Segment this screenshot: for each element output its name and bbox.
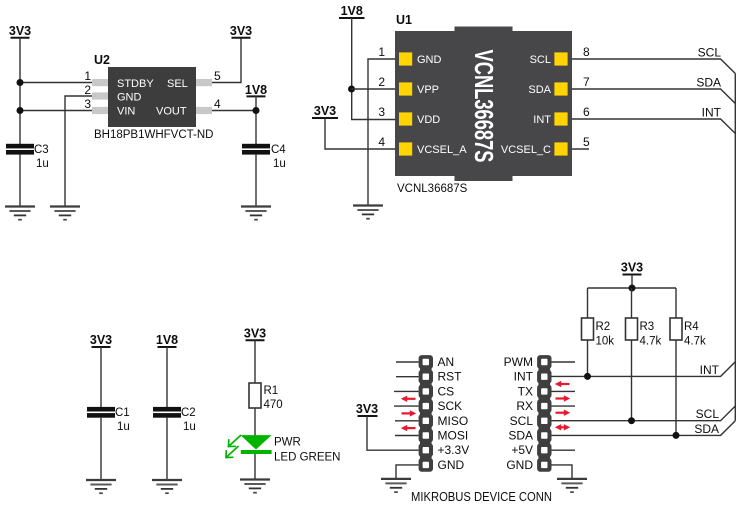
svg-text:SCL: SCL xyxy=(696,407,720,421)
svg-text:1u: 1u xyxy=(36,158,49,170)
svg-text:VDD: VDD xyxy=(417,114,440,126)
svg-text:GND: GND xyxy=(506,458,533,472)
wire C2 top xyxy=(166,347,168,407)
node junction R2/INT xyxy=(584,373,591,380)
svg-text:3V3: 3V3 xyxy=(356,402,378,416)
wire C3 to ground xyxy=(19,155,21,207)
wire stub U1 pin5 VCSEL_C xyxy=(572,148,589,150)
U1 pin pad 7 xyxy=(554,82,567,95)
capacitor C3 xyxy=(6,144,34,155)
signal arrow right TX/RX xyxy=(556,395,571,401)
wire R2 top xyxy=(587,288,589,318)
wire 3V3 vertical to C3 xyxy=(19,38,21,144)
wire LED to ground xyxy=(254,454,256,480)
svg-text:2: 2 xyxy=(378,75,385,89)
svg-text:1: 1 xyxy=(378,45,385,59)
svg-text:5: 5 xyxy=(214,69,221,83)
ground (C3) xyxy=(5,207,35,220)
svg-text:C3: C3 xyxy=(34,144,49,156)
U2 pin stub 5 xyxy=(196,79,212,86)
signal arrow right RX/SCL xyxy=(556,410,571,416)
wire U1 pin2 VPP xyxy=(352,88,396,90)
signal arrow both SCL/SDA xyxy=(555,424,570,430)
U1 pin pad 4 xyxy=(399,142,412,155)
wire R1 to LED xyxy=(254,408,256,436)
wire 1V8 flag down to C4 xyxy=(255,96,257,144)
svg-text:VCSEL_C: VCSEL_C xyxy=(501,144,551,156)
svg-text:INT: INT xyxy=(700,363,720,377)
node junction R3/SCL xyxy=(628,417,635,424)
power flag 3V3 (mikrobus +3.3V) xyxy=(356,402,378,416)
svg-text:SCK: SCK xyxy=(438,399,463,413)
wire stub MOSI xyxy=(395,435,419,437)
svg-text:TX: TX xyxy=(518,384,533,398)
svg-text:7: 7 xyxy=(583,75,590,89)
svg-text:3V3: 3V3 xyxy=(244,327,266,341)
ground (LED) xyxy=(240,480,270,493)
power flag 3V3 (U1 VCSEL_A) xyxy=(312,104,338,118)
U1 pin pad 8 xyxy=(554,52,567,65)
svg-text:C4: C4 xyxy=(271,144,286,156)
power flag 3V3 (R1/LED) xyxy=(244,327,266,341)
wire U2 pin5 SEL up to 3V3 flag xyxy=(212,38,241,83)
power flag 3V3 (top-left rail) xyxy=(9,24,31,38)
svg-text:LED GREEN: LED GREEN xyxy=(274,452,340,464)
svg-text:AN: AN xyxy=(438,355,455,369)
svg-text:INT: INT xyxy=(514,370,534,384)
resistor R2 xyxy=(582,318,594,340)
svg-text:5: 5 xyxy=(583,135,590,149)
svg-text:R2: R2 xyxy=(596,321,611,333)
svg-text:RX: RX xyxy=(516,399,533,413)
U2 pin stub 3 xyxy=(92,107,108,114)
wire C2 to ground xyxy=(166,418,168,480)
svg-text:VCNL36687S: VCNL36687S xyxy=(469,50,499,163)
svg-text:GND: GND xyxy=(438,458,465,472)
power flag 3V3 (U2 SEL) xyxy=(230,24,252,38)
wire C1 to ground xyxy=(100,418,102,480)
svg-text:R1: R1 xyxy=(264,385,279,397)
signal arrow left MISO/MOSI xyxy=(401,425,416,431)
wire net SCL from U1 pin8 to bus xyxy=(572,59,735,74)
wire 3V3 to +3.3V pin xyxy=(367,416,419,450)
svg-text:U1: U1 xyxy=(396,13,412,27)
svg-text:C1: C1 xyxy=(115,407,130,419)
node junction VOUT/1V8/C4 xyxy=(253,107,260,114)
svg-text:SDA: SDA xyxy=(694,422,719,436)
ground (U2 GND pin) xyxy=(50,207,80,220)
wire R1 top xyxy=(254,340,256,383)
LED PWR anode triangle xyxy=(241,435,272,449)
wire left GND pin to ground xyxy=(396,465,419,479)
U1 pin pad 3 xyxy=(399,112,412,125)
svg-text:C2: C2 xyxy=(181,407,196,419)
wire stub SCK xyxy=(394,405,419,407)
U2 pin stub 2 xyxy=(92,92,108,99)
svg-text:CS: CS xyxy=(438,384,455,398)
svg-text:SCL: SCL xyxy=(510,414,534,428)
bus line right edge xyxy=(734,74,736,421)
wire R2 bottom to INT xyxy=(587,340,589,376)
node junction 1V8/VPP xyxy=(348,86,355,93)
signal arrow right SCK/MISO xyxy=(402,410,417,416)
svg-text:1V8: 1V8 xyxy=(156,333,178,347)
svg-text:MOSI: MOSI xyxy=(438,429,469,443)
signal arrow left INT/TX xyxy=(555,381,570,387)
ground (mikrobus left) xyxy=(381,479,411,492)
resistor R1 xyxy=(249,383,261,408)
svg-text:8: 8 xyxy=(583,45,590,59)
svg-text:3V3: 3V3 xyxy=(314,104,336,118)
wire R3 top xyxy=(631,288,633,318)
wire 3V3 to U1 pin4 VCSEL_A xyxy=(325,118,395,149)
svg-text:GND: GND xyxy=(117,92,142,104)
wire U2 pin1 STDBY to 3V3 xyxy=(20,82,92,84)
svg-text:MIKROBUS DEVICE CONN: MIKROBUS DEVICE CONN xyxy=(411,490,552,504)
power flag 1V8 (C2) xyxy=(156,333,178,347)
U2 pin stub 4 xyxy=(196,107,212,114)
wire pull-up rail xyxy=(588,287,677,289)
svg-text:RST: RST xyxy=(438,370,463,384)
svg-text:SDA: SDA xyxy=(696,76,721,90)
svg-text:INT: INT xyxy=(702,106,722,120)
wire C4 to ground xyxy=(255,155,257,207)
svg-text:3: 3 xyxy=(84,97,91,111)
wire right GND pin to ground xyxy=(552,465,573,479)
power flag 1V8 (U1 supply) xyxy=(339,4,365,18)
wire net SCL from bus to header xyxy=(552,406,736,421)
LED light arrow 2 xyxy=(226,447,238,458)
svg-text:VCNL36687S: VCNL36687S xyxy=(397,183,468,195)
power flag 3V3 (C1) xyxy=(90,333,112,347)
header column left (mikrobus) xyxy=(419,355,433,472)
svg-text:MISO: MISO xyxy=(438,414,469,428)
svg-text:1V8: 1V8 xyxy=(341,4,363,18)
power flag 3V3 (pull-up rail) xyxy=(621,261,643,275)
resistor R3 xyxy=(626,318,638,340)
wire stub RST xyxy=(396,376,419,378)
svg-text:VIN: VIN xyxy=(117,106,135,118)
wire net SDA from U1 pin7 to bus xyxy=(572,89,735,104)
node junction 3V3/pin1 xyxy=(17,79,24,86)
svg-text:VPP: VPP xyxy=(417,84,439,96)
wire stub AN xyxy=(396,361,419,363)
node junction rail/R3 xyxy=(629,285,636,292)
svg-text:R3: R3 xyxy=(640,321,655,333)
svg-text:SDA: SDA xyxy=(508,429,533,443)
wire R3 bottom to SCL xyxy=(631,340,633,421)
svg-text:10k: 10k xyxy=(596,336,615,348)
wire net INT from bus to header xyxy=(552,362,736,377)
svg-text:1u: 1u xyxy=(117,421,130,433)
svg-text:3V3: 3V3 xyxy=(621,261,643,275)
svg-text:BH18PB1WHFVCT-ND: BH18PB1WHFVCT-ND xyxy=(94,129,214,141)
svg-text:U2: U2 xyxy=(94,53,110,67)
ground (C2) xyxy=(152,480,182,493)
wire C1 top xyxy=(100,347,102,407)
wire 3V3 flag to rail xyxy=(631,275,633,289)
U1 pin pad 6 xyxy=(554,112,567,125)
svg-text:R4: R4 xyxy=(684,321,699,333)
wire U2 pin3 VIN to 3V3 xyxy=(20,110,92,112)
svg-text:3: 3 xyxy=(378,105,385,119)
wire U2 pin4 VOUT to 1V8 node xyxy=(212,110,256,112)
svg-text:VOUT: VOUT xyxy=(156,106,187,118)
svg-text:SCL: SCL xyxy=(698,46,722,60)
svg-text:3V3: 3V3 xyxy=(230,24,252,38)
wire R4 bottom to SDA xyxy=(675,340,677,435)
wire R4 top xyxy=(675,288,677,318)
U1 pin pad 1 xyxy=(399,52,412,65)
wire stub MISO xyxy=(395,420,419,422)
svg-text:3V3: 3V3 xyxy=(9,24,31,38)
svg-text:6: 6 xyxy=(583,105,590,119)
svg-text:1u: 1u xyxy=(183,421,196,433)
wire 1V8 vertical to VPP and VDD xyxy=(352,18,395,120)
wire U2 pin2 GND down to ground xyxy=(65,96,92,207)
svg-text:SDA: SDA xyxy=(528,84,551,96)
IC U1 body xyxy=(395,27,572,182)
power flag 1V8 (VOUT rail) xyxy=(245,83,267,97)
ground (U1 GND) xyxy=(353,206,383,219)
svg-text:INT: INT xyxy=(533,114,551,126)
svg-text:2: 2 xyxy=(84,83,91,97)
LED cathode bar xyxy=(241,450,272,454)
svg-text:PWR: PWR xyxy=(274,437,301,449)
svg-text:STDBY: STDBY xyxy=(117,78,154,90)
header column right (mikrobus) xyxy=(537,355,551,472)
wire U1 pin1 GND to ground xyxy=(368,59,395,206)
svg-text:1u: 1u xyxy=(273,158,286,170)
svg-text:1: 1 xyxy=(84,69,91,83)
svg-text:PWM: PWM xyxy=(504,355,533,369)
wire stub PWM xyxy=(552,361,576,363)
svg-text:GND: GND xyxy=(417,54,442,66)
svg-text:4: 4 xyxy=(214,97,221,111)
wire net SDA from bus to header xyxy=(552,421,736,436)
wire net INT from U1 pin6 to bus xyxy=(572,119,735,134)
node junction R4/SDA xyxy=(673,432,680,439)
svg-text:SEL: SEL xyxy=(167,78,188,90)
capacitor C2 xyxy=(153,407,181,418)
U1 pin pad 5 xyxy=(554,142,567,155)
capacitor C1 xyxy=(87,407,115,418)
svg-text:470: 470 xyxy=(264,399,283,411)
svg-text:3V3: 3V3 xyxy=(90,333,112,347)
capacitor C4 xyxy=(242,144,270,155)
IC U2 body xyxy=(108,67,196,127)
wire stub +5V xyxy=(552,449,576,451)
node junction 3V3/pin3 xyxy=(17,107,24,114)
ground (C1) xyxy=(86,480,116,493)
U1 pin pad 2 xyxy=(399,82,412,95)
signal arrow left CS/SCK xyxy=(401,396,416,402)
resistor R4 xyxy=(670,318,682,340)
LED light arrow 1 xyxy=(229,436,241,447)
svg-text:SCL: SCL xyxy=(530,54,551,66)
svg-text:+5V: +5V xyxy=(511,443,533,457)
svg-text:1V8: 1V8 xyxy=(245,83,267,97)
U2 pin stub 1 xyxy=(92,79,108,86)
wire stub TX xyxy=(552,390,576,392)
wire stub CS xyxy=(394,390,419,392)
svg-text:4.7k: 4.7k xyxy=(640,336,662,348)
ground (C4) xyxy=(241,207,271,220)
ground (mikrobus right) xyxy=(557,479,587,492)
svg-text:VCSEL_A: VCSEL_A xyxy=(417,144,467,156)
wire stub RX xyxy=(552,405,576,407)
svg-text:4: 4 xyxy=(378,135,385,149)
svg-text:+3.3V: +3.3V xyxy=(438,443,470,457)
svg-text:4.7k: 4.7k xyxy=(684,336,706,348)
